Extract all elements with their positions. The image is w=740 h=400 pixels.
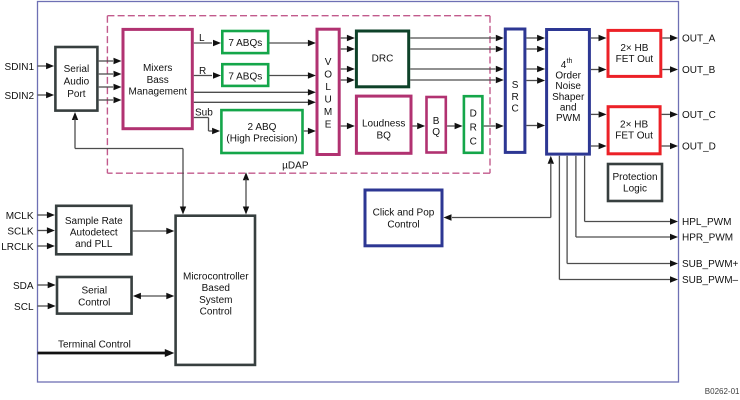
svg-text:SCLK: SCLK bbox=[7, 227, 33, 238]
block Loudness BQ bbox=[356, 96, 411, 153]
block 2 ABQ High Precision bbox=[221, 110, 302, 153]
svg-text:Serial: Serial bbox=[64, 64, 90, 75]
svg-text:System: System bbox=[199, 295, 232, 306]
svg-text:B: B bbox=[433, 116, 440, 127]
wire DRC small to SRC bbox=[484, 125, 496, 127]
svg-text:SDA: SDA bbox=[13, 281, 34, 292]
block DRC small bbox=[464, 96, 483, 153]
svg-text:Order: Order bbox=[555, 71, 581, 82]
wire MCLK to Sample Rate Autodetect bbox=[38, 214, 48, 216]
svg-text:R: R bbox=[470, 123, 477, 134]
svg-text:OUT_D: OUT_D bbox=[682, 142, 716, 153]
svg-text:MCLK: MCLK bbox=[6, 211, 34, 222]
wire system control to Serial Audio Port bbox=[72, 112, 78, 120]
wires noise shaper to FET lower (2 lines) bbox=[591, 113, 599, 115]
svg-text:Terminal Control: Terminal Control bbox=[58, 340, 131, 351]
svg-text:2 ABQ: 2 ABQ bbox=[248, 122, 277, 133]
svg-text:U: U bbox=[324, 95, 331, 106]
wire noise shaper to Click and Pop Control bbox=[548, 156, 554, 164]
wires SRC to noise shaper (5 lines) bbox=[526, 37, 537, 39]
svg-text:and PLL: and PLL bbox=[75, 239, 113, 250]
svg-text:C: C bbox=[470, 137, 477, 148]
wire Loudness BQ to BQ bbox=[413, 125, 418, 127]
block 2x HB FET Out lower bbox=[608, 107, 660, 154]
svg-text:2× HB: 2× HB bbox=[620, 43, 648, 54]
block Serial Control bbox=[57, 277, 132, 314]
svg-text:µDAP: µDAP bbox=[282, 160, 309, 171]
svg-text:Logic: Logic bbox=[623, 184, 647, 195]
wire SDA to Serial Control bbox=[38, 284, 49, 286]
wire FET lower to OUT_C bbox=[662, 113, 671, 115]
wire noise shaper to SUB_PWM+ bbox=[566, 156, 568, 264]
block 2x HB FET Out upper bbox=[608, 30, 661, 76]
svg-text:SUB_PWM–: SUB_PWM– bbox=[682, 275, 739, 286]
wire 2 ABQ to Volume bbox=[304, 130, 308, 132]
svg-text:Microcontroller: Microcontroller bbox=[183, 271, 249, 282]
svg-text:V: V bbox=[325, 57, 332, 68]
svg-text:D: D bbox=[470, 109, 477, 120]
svg-text:OUT_A: OUT_A bbox=[682, 34, 716, 45]
wire FET lower to OUT_D bbox=[662, 145, 671, 147]
wire uDAP to system control (bidirectional) bbox=[243, 172, 249, 180]
svg-text:th: th bbox=[567, 58, 573, 65]
svg-text:Based: Based bbox=[202, 283, 230, 294]
wire Mixers R to 7 ABQs lower bbox=[194, 75, 212, 77]
svg-text:E: E bbox=[325, 120, 332, 131]
block SRC bbox=[505, 29, 525, 152]
svg-text:HPL_PWM: HPL_PWM bbox=[682, 217, 731, 228]
svg-text:and: and bbox=[560, 102, 577, 113]
svg-text:M: M bbox=[324, 107, 332, 118]
wire Mixers L to 7 ABQs upper bbox=[194, 42, 212, 44]
wire Sample Rate to system control bbox=[133, 230, 167, 232]
svg-text:Control: Control bbox=[387, 220, 419, 231]
svg-text:L: L bbox=[325, 82, 331, 93]
svg-text:(High Precision): (High Precision) bbox=[226, 134, 297, 145]
wire LRCLK to Sample Rate Autodetect bbox=[38, 245, 48, 247]
svg-text:Management: Management bbox=[129, 87, 188, 98]
block Serial Audio Port bbox=[55, 47, 97, 111]
wire Mixers Sub elbow to 2 ABQ bbox=[194, 117, 209, 119]
block Sample Rate Autodetect and PLL bbox=[56, 206, 131, 255]
svg-text:FET Out: FET Out bbox=[616, 54, 654, 65]
svg-text:Shaper: Shaper bbox=[552, 92, 585, 103]
svg-text:PWM: PWM bbox=[556, 113, 580, 124]
block Click and Pop Control bbox=[365, 190, 442, 246]
wire SDIN1 to Serial Audio Port bbox=[38, 65, 48, 67]
wire noise shaper to HPL_PWM bbox=[584, 156, 586, 222]
svg-text:7 ABQs: 7 ABQs bbox=[228, 71, 262, 82]
block DRC main bbox=[356, 31, 408, 87]
svg-text:BQ: BQ bbox=[376, 130, 391, 141]
svg-text:Loudness: Loudness bbox=[362, 118, 405, 129]
svg-text:Bass: Bass bbox=[147, 75, 169, 86]
svg-text:C: C bbox=[511, 104, 518, 115]
svg-text:Noise: Noise bbox=[555, 81, 581, 92]
wires Volume to DRC (4 lines) bbox=[341, 37, 347, 39]
svg-text:SCL: SCL bbox=[14, 302, 34, 313]
svg-text:SUB_PWM+: SUB_PWM+ bbox=[682, 259, 739, 270]
block Protection Logic bbox=[608, 164, 662, 201]
svg-text:OUT_C: OUT_C bbox=[682, 110, 716, 121]
block Microcontroller Based System Control bbox=[176, 216, 255, 365]
block Mixers Bass Management bbox=[123, 29, 192, 128]
wire SCLK to Sample Rate Autodetect bbox=[38, 230, 48, 232]
wires Serial Audio Port to Mixers (4 lines) bbox=[99, 60, 113, 62]
wires noise shaper to FET upper (2 lines) bbox=[591, 37, 599, 39]
block BQ bbox=[427, 97, 446, 153]
svg-text:FET Out: FET Out bbox=[615, 131, 653, 142]
svg-text:Autodetect: Autodetect bbox=[70, 228, 118, 239]
wire BQ to DRC small bbox=[447, 125, 454, 127]
svg-text:DRC: DRC bbox=[372, 54, 394, 65]
svg-text:S: S bbox=[512, 80, 519, 91]
wire Terminal Control to system control (thick) bbox=[38, 352, 167, 355]
wire Serial Control to system control (bidirectional) bbox=[140, 295, 168, 297]
svg-text:Protection: Protection bbox=[612, 172, 657, 183]
svg-text:Q: Q bbox=[432, 127, 440, 138]
wire SDIN2 to Serial Audio Port bbox=[38, 94, 48, 96]
svg-text:7 ABQs: 7 ABQs bbox=[228, 38, 262, 49]
svg-text:Port: Port bbox=[67, 89, 86, 100]
block Volume bbox=[317, 29, 339, 154]
block 7 ABQs lower bbox=[222, 64, 268, 86]
svg-text:B0262-01: B0262-01 bbox=[705, 387, 740, 395]
svg-text:Click and Pop: Click and Pop bbox=[373, 208, 435, 219]
wire Mixers passthrough upper to Volume bbox=[194, 91, 308, 93]
svg-text:Sample Rate: Sample Rate bbox=[65, 216, 123, 227]
wire Volume to Loudness BQ bbox=[341, 125, 347, 127]
wires DRC to SRC (4 lines) bbox=[410, 37, 495, 39]
wire 7 ABQs lower to Volume bbox=[270, 75, 309, 77]
wire FET upper to OUT_A bbox=[662, 37, 670, 39]
wire 7 ABQs upper to Volume bbox=[270, 42, 309, 44]
wire FET upper to OUT_B bbox=[662, 69, 670, 71]
block 7 ABQs upper bbox=[222, 31, 268, 53]
svg-text:LRCLK: LRCLK bbox=[1, 242, 34, 253]
wire noise shaper to SUB_PWM- bbox=[558, 156, 560, 280]
svg-text:SDIN1: SDIN1 bbox=[5, 62, 35, 73]
svg-text:O: O bbox=[324, 69, 332, 80]
wire noise shaper to HPR_PWM bbox=[575, 156, 577, 237]
svg-text:2× HB: 2× HB bbox=[620, 120, 648, 131]
wire Mixers passthrough lower to Volume bbox=[194, 101, 308, 103]
svg-text:Control: Control bbox=[78, 298, 110, 309]
svg-text:Mixers: Mixers bbox=[143, 63, 172, 74]
svg-text:SDIN2: SDIN2 bbox=[5, 91, 35, 102]
svg-text:OUT_B: OUT_B bbox=[682, 65, 716, 76]
svg-text:HPR_PWM: HPR_PWM bbox=[682, 233, 733, 244]
svg-text:Audio: Audio bbox=[64, 77, 90, 88]
wire SCL to Serial Control bbox=[38, 305, 49, 307]
svg-text:Serial: Serial bbox=[82, 286, 108, 297]
svg-text:R: R bbox=[511, 92, 518, 103]
svg-text:Control: Control bbox=[200, 307, 232, 318]
dashed uDAP region box bbox=[107, 16, 490, 174]
block 4th Order Noise Shaper and PWM bbox=[547, 30, 590, 155]
